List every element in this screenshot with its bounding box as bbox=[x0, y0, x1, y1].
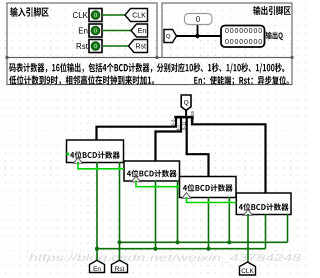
svg-text:0: 0 bbox=[94, 13, 97, 19]
svg-text:CLK: CLK bbox=[72, 11, 88, 20]
svg-text:Q: Q bbox=[184, 100, 189, 107]
svg-text:4-7: 4-7 bbox=[176, 124, 181, 131]
svg-text:En: En bbox=[78, 26, 88, 35]
svg-text:8-11: 8-11 bbox=[181, 121, 186, 130]
svg-text:12-15: 12-15 bbox=[190, 110, 195, 122]
svg-text:Rst: Rst bbox=[76, 42, 89, 51]
svg-text:0: 0 bbox=[94, 44, 97, 50]
svg-text:Rst: Rst bbox=[136, 44, 147, 51]
svg-text:00000000: 00000000 bbox=[225, 39, 263, 46]
svg-text:https://blog.csdn.net/weixin_4: https://blog.csdn.net/weixin_43784248 bbox=[29, 252, 301, 264]
svg-text:00000000: 00000000 bbox=[225, 28, 263, 35]
svg-text:0: 0 bbox=[94, 29, 97, 35]
svg-text:Q: Q bbox=[166, 34, 171, 40]
svg-text:En: En bbox=[93, 266, 101, 273]
svg-text:En: En bbox=[138, 28, 147, 35]
svg-text:Rst: Rst bbox=[115, 266, 125, 273]
svg-text:CLK: CLK bbox=[132, 13, 146, 20]
svg-text:CLK: CLK bbox=[241, 268, 254, 275]
svg-text:0: 0 bbox=[196, 15, 201, 24]
